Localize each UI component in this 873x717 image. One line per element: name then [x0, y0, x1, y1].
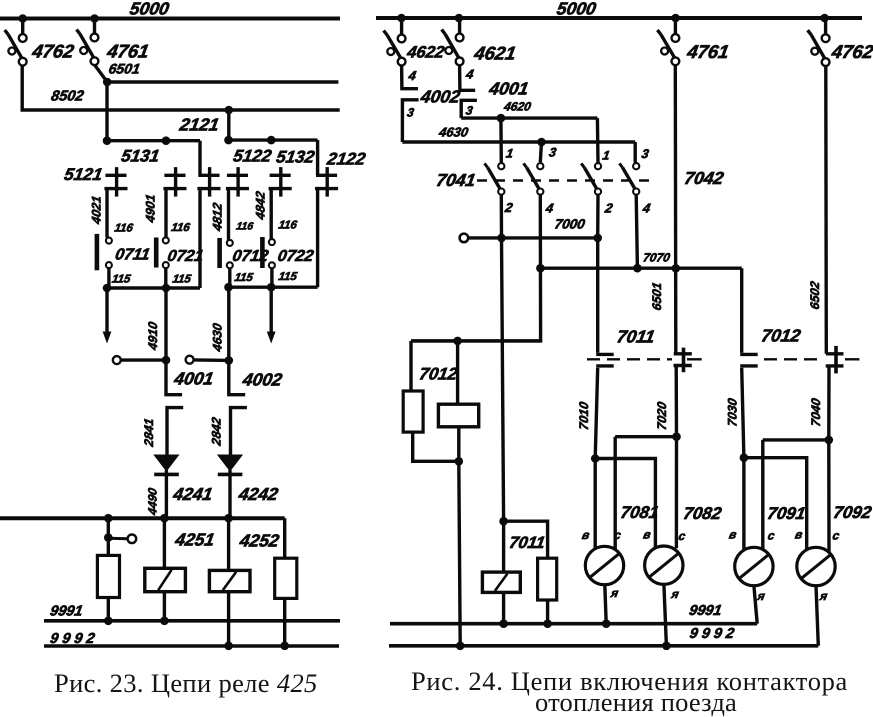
- node 7040 hook: [825, 436, 834, 445]
- contact 5132: [270, 174, 291, 177]
- hook wire 7030 to motor 7092 B: [744, 458, 807, 550]
- wire 7081 to 9991: [605, 585, 606, 624]
- contact 7041-b: [537, 163, 543, 169]
- node 8502/4630 branch: [225, 106, 234, 115]
- plug contact 0711: [106, 238, 112, 244]
- contactor 7012 dashes: [764, 358, 822, 360]
- node 7011 coil top: [499, 517, 508, 526]
- wire 0711 to cell1 bottom rail: [107, 268, 110, 288]
- svg-text:116: 116: [277, 220, 298, 232]
- svg-text:0722: 0722: [276, 247, 315, 265]
- arrow down from cell2: [270, 287, 273, 334]
- svg-text:2121: 2121: [177, 115, 220, 135]
- node: bus to 4761: [90, 14, 99, 23]
- svg-text:5000: 5000: [128, 0, 171, 18]
- svg-text:4630: 4630: [437, 125, 470, 140]
- svg-text:7012: 7012: [418, 364, 460, 384]
- hook wire 7010 to motor 7082 B: [595, 459, 655, 549]
- cell 1 bottom rail: [107, 286, 200, 289]
- svg-text:115: 115: [233, 272, 254, 284]
- svg-text:4241: 4241: [171, 484, 214, 504]
- svg-text:6501: 6501: [650, 281, 664, 311]
- wire 6501 (left diagram): [107, 80, 338, 83]
- svg-text:2122: 2122: [325, 149, 368, 169]
- wire right branch cell2 down: [316, 189, 319, 288]
- svg-text:7012: 7012: [760, 326, 803, 346]
- wire right branch cell1 down: [198, 189, 201, 288]
- svg-text:отопления поезда: отопления поезда: [535, 687, 737, 717]
- contactor 7012 fixed contact (left): [740, 353, 758, 356]
- test terminal circle: [128, 535, 137, 544]
- node bus-4761: [671, 14, 680, 23]
- switch 4622: [400, 20, 403, 36]
- contactor 7011 dashes: [587, 358, 672, 360]
- rail 425 (left diagram mid rail): [0, 516, 285, 520]
- svg-text:4630: 4630: [211, 322, 225, 353]
- contact 2122 (right branch cell2): [316, 140, 319, 175]
- wire to 7012 coil: [456, 341, 459, 404]
- switch 4621: [458, 19, 461, 35]
- resistor left branch: [97, 555, 119, 597]
- svg-text:Рис. 23. Цепи реле 425: Рис. 23. Цепи реле 425: [54, 668, 318, 698]
- wire 7012 resistor bottom: [413, 432, 459, 461]
- wire right resistor to 9992: [283, 598, 286, 645]
- node rail-4242: [224, 514, 233, 523]
- svg-text:7070: 7070: [642, 251, 671, 265]
- wire diode 4241 to rail: [165, 470, 168, 518]
- wire diode 4242 to rail: [228, 470, 231, 518]
- node 7070-d: [633, 264, 642, 273]
- wire 0712 to cell2 bottom rail: [228, 268, 231, 287]
- stub 4630 to contact 3: [540, 142, 541, 162]
- wire coil 7011 to 9991: [502, 592, 505, 623]
- sub-circuit 7012 coil: top wire: [411, 339, 541, 342]
- resistor right branch: [275, 558, 297, 598]
- wire 7010: [595, 368, 598, 549]
- contact 7041-d: [633, 163, 639, 169]
- svg-text:4761: 4761: [105, 41, 151, 62]
- diode 4242: [218, 455, 241, 470]
- wire terminal to 4630: [194, 358, 229, 362]
- plug contact 0712: [227, 240, 233, 246]
- node cell1 top middle: [162, 136, 171, 145]
- wire contact-c down to 7011 main contact: [596, 195, 600, 353]
- terminal circle 7000: [460, 234, 469, 243]
- svg-text:5122: 5122: [232, 146, 274, 166]
- wire 6502 vertical: [824, 66, 828, 354]
- node bus-4621: [455, 14, 464, 23]
- svg-text:4002: 4002: [240, 370, 284, 390]
- wire 7091 to 9991 corner: [754, 586, 757, 624]
- node 7082-9992: [662, 642, 671, 651]
- test terminal stub: [108, 537, 127, 541]
- node rail-left branch: [104, 514, 113, 523]
- node 4001: [162, 356, 171, 365]
- wire middle branch cell2 to plug 0722: [270, 189, 273, 240]
- motor 7092: [797, 547, 835, 585]
- svg-text:9991: 9991: [49, 604, 84, 620]
- switch 4761 (left): [93, 19, 96, 35]
- wire contact-b down, corner to 7012 coil: [411, 195, 541, 341]
- node 7012 bottom: [455, 457, 464, 466]
- svg-text:115: 115: [111, 274, 132, 286]
- wire left branch cell1 to plug 0711: [105, 189, 108, 238]
- svg-text:4762: 4762: [829, 41, 873, 62]
- knife 4002 upper half: [229, 360, 245, 394]
- svg-text:116: 116: [113, 223, 134, 235]
- svg-text:5131: 5131: [120, 146, 161, 166]
- svg-text:4812: 4812: [211, 202, 225, 233]
- contact 5121: [105, 174, 126, 177]
- svg-text:2841: 2841: [142, 417, 156, 448]
- switch 4761 right: [674, 19, 677, 35]
- node bus-4762: [820, 14, 829, 23]
- node 4251-9991: [160, 617, 169, 626]
- node resistor-9991: [104, 617, 113, 626]
- diode 4241: [155, 455, 178, 470]
- wire 7070: [540, 267, 741, 270]
- wire 4242 branch to coil 4252: [227, 518, 230, 570]
- wire 8502 from switch 4762: [22, 66, 340, 111]
- rail 9992 right diagram: [389, 644, 818, 648]
- svg-text:4252: 4252: [237, 531, 281, 551]
- node 7011 resistor-9991: [543, 619, 552, 628]
- rail 9992 left diagram: [44, 644, 339, 648]
- switch 4762 right: [824, 19, 827, 35]
- terminal circle 4002: [186, 356, 194, 364]
- svg-text:9 9 9 2: 9 9 9 2: [49, 631, 96, 647]
- node cell2 top middle: [267, 136, 276, 145]
- wire middle branch cell1 to plug 0721: [164, 189, 167, 238]
- svg-text:7041: 7041: [435, 170, 477, 190]
- dashed actuator line 7041: [477, 179, 652, 182]
- connector 4001 lower half: [461, 100, 477, 118]
- svg-text:4002: 4002: [418, 87, 462, 107]
- resistor 7012: [403, 391, 423, 432]
- node right resistor-9992: [280, 642, 289, 651]
- wire 7092 to 9992 corner: [816, 586, 818, 646]
- node cell1 bottom middle: [162, 284, 171, 293]
- wire 7040 hook: [761, 440, 764, 550]
- svg-text:4490: 4490: [146, 487, 160, 517]
- wire 4910: [164, 288, 167, 360]
- node cell2 bottom left: [224, 283, 233, 292]
- motor 7082: [645, 546, 683, 584]
- corner 4630 to contact 3b: [634, 142, 637, 163]
- node 7000-a: [497, 234, 506, 243]
- wire terminal to 4910: [121, 358, 166, 361]
- wire 7030: [742, 368, 744, 550]
- wire 7012 node to 9992: [459, 461, 460, 646]
- wire coil 4252 to 9992: [227, 592, 230, 646]
- arrow down from cell1: [105, 288, 108, 334]
- node rail-4490: [160, 514, 169, 523]
- svg-text:7082: 7082: [682, 503, 724, 523]
- wire 4620: [461, 116, 597, 119]
- svg-text:4620: 4620: [502, 100, 532, 114]
- contact 5131: [164, 174, 185, 177]
- wire 6501 vertical: [674, 65, 678, 354]
- svg-text:9 9 9 2: 9 9 9 2: [688, 626, 735, 642]
- contactor 7011 moving contact (on 6501): [674, 352, 692, 355]
- contact 7041-c: [595, 163, 601, 169]
- svg-text:6502: 6502: [808, 280, 822, 310]
- resistor 7011: [538, 558, 557, 600]
- svg-text:7030: 7030: [726, 397, 740, 427]
- motor 7081: [585, 546, 623, 584]
- plug contact 0722: [269, 239, 275, 245]
- terminal circle 4001: [113, 356, 121, 364]
- contactor 7011 fixed contact (left): [596, 353, 614, 356]
- node 4620-contact1: [497, 114, 506, 123]
- node 7030 hook: [740, 453, 749, 462]
- svg-text:4761: 4761: [685, 41, 731, 62]
- node test terminal: [104, 533, 113, 542]
- svg-text:4901: 4901: [144, 193, 158, 224]
- svg-text:115: 115: [277, 271, 298, 283]
- knife 4001 lower half: [167, 408, 183, 456]
- svg-text:4001: 4001: [487, 79, 530, 99]
- wire 7000: [468, 236, 598, 239]
- wire 7011 node right: [504, 521, 548, 558]
- svg-text:4251: 4251: [173, 530, 216, 550]
- wire 7011 resistor to 9991: [546, 600, 549, 624]
- svg-text:0711: 0711: [114, 246, 152, 264]
- connector 4001 upper half: [460, 65, 476, 90]
- wire 7082 to 9992: [664, 584, 667, 646]
- contact 5122: [227, 174, 248, 177]
- bus 5000 (right diagram): [376, 16, 862, 20]
- corner 4620 to contact 1b: [596, 118, 600, 163]
- relay coil 4252: [209, 570, 250, 591]
- svg-text:7000: 7000: [553, 217, 586, 232]
- node 7010 hook: [591, 454, 600, 463]
- corner 7070 down to 7012 contact: [740, 268, 743, 353]
- node 6501 junction: [103, 78, 112, 87]
- svg-text:7011: 7011: [508, 533, 547, 552]
- knife 4002 lower half: [231, 408, 247, 456]
- svg-text:116: 116: [170, 222, 191, 234]
- svg-text:7091: 7091: [766, 503, 807, 523]
- svg-text:4621: 4621: [472, 43, 518, 64]
- node cell1 bottom left: [103, 284, 112, 293]
- wire resistor to rail 9991: [107, 598, 110, 621]
- relay coil 4251: [145, 568, 186, 591]
- svg-text:7092: 7092: [832, 502, 873, 522]
- node 4252-9992: [224, 642, 233, 651]
- node 7070 start: [536, 264, 545, 273]
- svg-text:5121: 5121: [63, 164, 104, 184]
- node 7012-9992: [456, 642, 465, 651]
- contact 7041-a: [498, 163, 504, 169]
- knife 4001 upper half: [166, 360, 182, 395]
- svg-text:4242: 4242: [236, 484, 280, 504]
- svg-text:4762: 4762: [30, 41, 76, 62]
- wire to 7012 resistor: [409, 341, 412, 391]
- node 7020 hook: [672, 432, 681, 441]
- wire 4630 right: [402, 140, 635, 143]
- wire to coil 7011: [502, 521, 505, 572]
- connector 4002 upper half: [402, 66, 418, 89]
- wire left branch cell2 to plug 0712: [227, 189, 230, 240]
- node: bus to 4762: [18, 14, 27, 23]
- cell 1 top rail: [107, 139, 200, 142]
- svg-text:6501: 6501: [107, 61, 141, 77]
- rail 9991 right diagram: [390, 622, 757, 626]
- svg-text:7040: 7040: [809, 397, 823, 427]
- wire 7020 hook: [614, 437, 617, 550]
- node 7012 coil top: [453, 337, 462, 346]
- svg-text:115: 115: [171, 274, 192, 286]
- wire contact-a down (to 7011 coil): [501, 195, 503, 521]
- cell 2 bottom rail: [229, 286, 318, 289]
- svg-text:7011: 7011: [615, 327, 656, 347]
- node coil 7011-9991: [499, 619, 508, 628]
- svg-text:5000: 5000: [555, 0, 598, 18]
- svg-text:9991: 9991: [688, 603, 723, 619]
- node 7070-6501: [672, 264, 681, 273]
- node 7081-9991: [602, 619, 611, 628]
- wire 7012 coil bottom: [457, 427, 460, 462]
- svg-text:7010: 7010: [577, 401, 591, 431]
- motor 7091: [735, 547, 773, 585]
- svg-text:4021: 4021: [90, 195, 104, 226]
- wire down from 8502 to cell 2: [227, 110, 230, 140]
- wire 0722 to cell2 bottom rail: [270, 268, 273, 287]
- node 7000-c: [593, 234, 602, 243]
- node cell2 bottom middle: [267, 283, 276, 292]
- wire coil 4251 to 9991: [163, 592, 166, 621]
- wire left branch down: [107, 518, 110, 555]
- svg-text:8502: 8502: [50, 89, 85, 105]
- svg-text:7020: 7020: [655, 401, 669, 431]
- wire down from node 6501 to cell 1: [105, 82, 108, 141]
- plug contact 0721: [163, 237, 169, 243]
- contactor 7012 moving contact (on 6502): [826, 352, 844, 355]
- node cell2 top left: [224, 136, 233, 145]
- wire 4241 branch to coil 4251: [163, 518, 166, 568]
- connector 4002 lower half: [402, 100, 418, 142]
- node bus-4622: [397, 14, 406, 23]
- svg-text:4001: 4001: [172, 369, 215, 389]
- node 4002: [225, 356, 234, 365]
- cell 2 top rail: [229, 138, 318, 141]
- node cell1 top left: [103, 136, 112, 145]
- svg-text:4842: 4842: [254, 190, 268, 221]
- svg-text:5132: 5132: [275, 147, 317, 167]
- svg-text:4622: 4622: [405, 43, 447, 62]
- wire right resistor branch: [283, 518, 286, 558]
- rail 9991 left diagram: [44, 619, 340, 623]
- switch 4762 (left): [21, 19, 24, 35]
- contact 2121 (right branch cell1): [198, 141, 201, 176]
- wire 4630 left: [227, 287, 230, 360]
- svg-text:4910: 4910: [146, 321, 160, 352]
- wire from 4761 to node 6501: [95, 65, 108, 82]
- node 4630-contact3: [537, 138, 546, 147]
- bus 5000 (left diagram): [0, 17, 340, 21]
- wire contact-d down to 7070: [636, 195, 637, 268]
- coil 7011: [482, 572, 520, 592]
- svg-text:7081: 7081: [619, 502, 660, 522]
- coil 7012: [438, 404, 478, 427]
- svg-text:7042: 7042: [683, 168, 726, 188]
- svg-text:2842: 2842: [210, 416, 224, 447]
- wire 0721 to cell1 bottom rail: [164, 268, 167, 288]
- stub 4620 to contact 1: [499, 118, 503, 163]
- svg-text:116: 116: [235, 221, 254, 233]
